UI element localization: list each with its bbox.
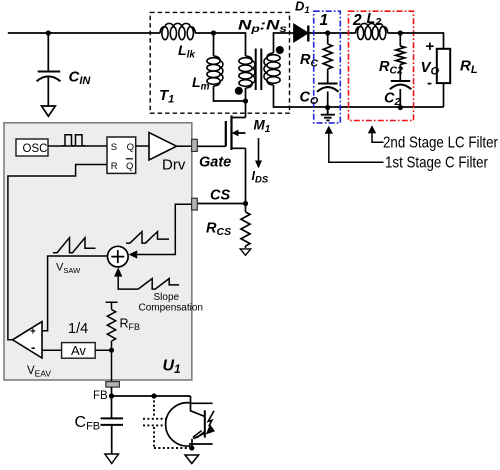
- svg-text:Q: Q: [127, 142, 134, 153]
- CS ramp waveform: [126, 232, 169, 244]
- oscillator OSC box: [16, 139, 48, 156]
- wire: primary bottom to M1 drain: [245, 101, 247, 118]
- capacitor CO: [318, 83, 338, 85]
- svg-text:CS: CS: [210, 188, 230, 204]
- svg-text:-: -: [31, 340, 35, 355]
- svg-text:IDS: IDS: [252, 169, 269, 186]
- svg-text:Llk: Llk: [178, 42, 195, 61]
- svg-text:T1: T1: [159, 87, 174, 106]
- svg-text:Compensation: Compensation: [139, 303, 203, 314]
- node: primary bottom: [243, 98, 248, 103]
- clock pulse waveform: [62, 135, 85, 146]
- transformer T1 dashed box: [150, 12, 289, 113]
- wire: Q to Drv: [136, 145, 149, 147]
- transformer secondary winding: [264, 53, 280, 85]
- wire: L2 to RL top: [388, 33, 444, 49]
- svg-text:R: R: [111, 161, 118, 172]
- primary polarity dot: [235, 87, 243, 95]
- node: emitter/ground: [189, 445, 194, 450]
- ground (below RCS, open arrow): [240, 249, 250, 255]
- 1st stage C filter blue box: [314, 11, 341, 123]
- arrow IDS: [258, 138, 260, 162]
- summing junction: [108, 246, 129, 267]
- svg-text:RC: RC: [300, 52, 318, 70]
- node: Lm tap: [211, 30, 216, 35]
- wire: CS pin to summing junction: [132, 204, 193, 254]
- pin CS (gray pad): [192, 198, 198, 210]
- resistor RL (box style): [437, 49, 450, 83]
- svg-text:Gate: Gate: [199, 155, 231, 171]
- resistor RC2: [396, 33, 405, 81]
- pin FB (gray pad): [106, 382, 120, 388]
- wire: error amp - input to Av: [42, 349, 62, 351]
- svg-text:OSC: OSC: [23, 143, 48, 155]
- svg-text:-: -: [427, 75, 432, 92]
- svg-text:RCS: RCS: [206, 221, 231, 239]
- capacitor CIN lead: [47, 33, 49, 106]
- resistor RC: [323, 33, 332, 83]
- phototransistor emitter with arrow: [192, 433, 205, 448]
- svg-text:1/4: 1/4: [68, 321, 88, 337]
- svg-text:D1: D1: [295, 0, 310, 16]
- svg-text:Av: Av: [71, 343, 86, 358]
- svg-text:FB: FB: [93, 390, 108, 402]
- wire: Lm bottom to primary bottom: [214, 86, 246, 101]
- inductor Lm: [207, 56, 223, 86]
- wire: gate lead: [197, 145, 226, 147]
- ground (below CIN, open arrow): [42, 106, 56, 116]
- wire: RL bottom lead: [443, 83, 445, 107]
- svg-text:C2: C2: [384, 91, 400, 109]
- ground (below opto, open arrow): [185, 455, 199, 464]
- svg-text:L2: L2: [367, 11, 382, 28]
- wire: VSAW to error amp + input: [42, 256, 108, 331]
- error amp VEAV: [13, 322, 42, 358]
- light arrow (lightning): [208, 411, 214, 427]
- transformer primary winding: [239, 56, 255, 88]
- node: CO bottom: [325, 105, 330, 110]
- VSAW ramp waveform: [53, 238, 96, 253]
- optocoupler phototransistor body: [166, 403, 191, 446]
- node: parasitic cap tap: [151, 393, 156, 398]
- svg-text:Q: Q: [126, 161, 133, 172]
- diode D1: [294, 25, 308, 42]
- svg-text:S: S: [111, 142, 117, 153]
- transformer core: [256, 49, 262, 91]
- phototransistor base bar: [204, 410, 206, 437]
- amplifier Av box: [62, 343, 96, 359]
- wire: R input from error amp: [8, 165, 107, 340]
- phototransistor collector: [191, 396, 205, 417]
- ground (below CFB, open arrow): [105, 454, 119, 464]
- inductor Llk: [160, 23, 195, 39]
- svg-text:2nd Stage LC Filter: 2nd Stage LC Filter: [383, 135, 499, 152]
- wire: slope comp into summing junction: [118, 277, 138, 290]
- wire: Lm top lead: [213, 33, 215, 56]
- capacitor C2: [391, 80, 411, 82]
- svg-text:CIN: CIN: [69, 69, 92, 88]
- svg-text:M1: M1: [254, 118, 271, 136]
- node: FB: [109, 393, 114, 398]
- wire: OSC to S input: [48, 145, 107, 147]
- wire: FB pin down and right: [111, 387, 191, 418]
- svg-text:Lm: Lm: [192, 74, 210, 93]
- svg-text:+: +: [426, 38, 435, 55]
- SR latch U-box: [107, 137, 136, 173]
- wire: secondary bottom rail: [274, 85, 444, 107]
- svg-text:Drv: Drv: [162, 157, 186, 174]
- resistor RCS: [241, 204, 250, 249]
- node A: input node: [46, 30, 51, 35]
- node: RC2 top: [398, 30, 403, 35]
- svg-text:1: 1: [320, 12, 329, 29]
- node: RC top: [325, 30, 330, 35]
- secondary polarity dot: [276, 46, 284, 54]
- parasitic capacitor (dotted): [143, 396, 191, 448]
- node: CS: [243, 201, 248, 206]
- capacitor CFB: [101, 418, 124, 425]
- emitter stub: [189, 443, 213, 445]
- wire: input top rail: [8, 32, 160, 34]
- capacitor CIN plates: [38, 71, 61, 73]
- resistor RFB with supply tick: [106, 302, 118, 381]
- wire: CS pin to CS node: [197, 203, 245, 205]
- wire: M1 source to CS node: [245, 148, 247, 203]
- transistor M1 (NMOS): [232, 118, 246, 149]
- pin Gate (gray pad): [192, 139, 198, 151]
- svg-text:RL: RL: [460, 58, 478, 77]
- U1 controller IC body: [4, 123, 192, 380]
- buffer Drv: [149, 133, 177, 161]
- svg-text:+: +: [30, 327, 36, 338]
- inductor L2: [356, 23, 388, 39]
- svg-text:1st Stage C Filter: 1st Stage C Filter: [385, 155, 489, 172]
- wire: Av to RFB node: [95, 349, 111, 351]
- svg-text:CFB: CFB: [75, 414, 101, 433]
- arrow pointer: 1st stage: [329, 133, 384, 162]
- svg-text:CO: CO: [300, 90, 319, 108]
- wire: Llk to primary top: [195, 33, 246, 56]
- arrow pointer: 2nd stage: [372, 133, 384, 142]
- wire: Drv to Gate pin: [177, 145, 192, 147]
- collector stub: [191, 402, 213, 404]
- wire: secondary top to diode anode: [274, 33, 295, 53]
- node: C2 bottom: [398, 105, 403, 110]
- node: Av/RFB: [109, 348, 114, 353]
- slope comp ramp waveform: [138, 279, 179, 290]
- 2nd stage LC filter red box: [349, 11, 414, 120]
- svg-text:Slope: Slope: [154, 292, 180, 303]
- wire: diode to L2: [308, 32, 356, 34]
- ground (earth, below CO): [321, 108, 335, 121]
